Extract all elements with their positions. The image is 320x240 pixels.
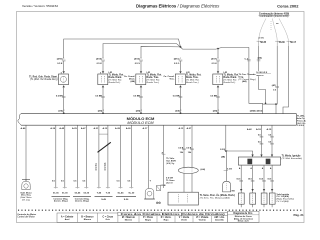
bus wire 4 bbox=[181, 47, 249, 49]
pin labels A-42 A-18 A-19 bbox=[247, 128, 272, 131]
ECM pin label (2/4) bbox=[136, 110, 142, 113]
svg-text:58-17: 58-17 bbox=[290, 42, 297, 44]
svg-text:T-45: T-45 bbox=[97, 191, 102, 194]
bottom terminal 51-30 bbox=[62, 188, 68, 195]
wire A-10 to ignition module bbox=[261, 125, 263, 157]
splice tick terminal3 wire bbox=[272, 84, 279, 91]
rotation sensor G3 box bbox=[136, 74, 146, 85]
svg-text:a: a bbox=[218, 110, 219, 112]
svg-text:SL-45: SL-45 bbox=[118, 191, 125, 194]
splice mark S-36 bbox=[156, 202, 160, 204]
small inline connector bbox=[156, 186, 160, 191]
ECM pin mark bbox=[63, 113, 65, 114]
document info box bbox=[228, 211, 260, 223]
svg-text:TL Sens. Posi. Áv. (Módu. Borb: TL Sens. Posi. Áv. (Módu. Borb.) bbox=[200, 194, 235, 197]
svg-text:A-17: A-17 bbox=[143, 127, 149, 130]
wire A-12 down bbox=[107, 125, 109, 187]
wire A-45 down bbox=[64, 125, 66, 187]
spark plug coil E3 bbox=[261, 193, 267, 204]
svg-text:Verde: Verde bbox=[181, 219, 188, 221]
svg-text:0.5 BR: 0.5 BR bbox=[56, 95, 63, 97]
svg-text:Controle do Motor: Controle do Motor bbox=[17, 213, 36, 216]
svg-text:(4/33): (4/33) bbox=[257, 110, 263, 113]
svg-text:(TL Sens. Pos. Mariposa) (4/2: (TL Sens. Pos. Mariposa) (4/2) bbox=[200, 196, 230, 199]
wire coil 3 bbox=[263, 165, 265, 193]
ECM pin mark bbox=[180, 113, 182, 114]
wire bbox=[180, 61, 182, 71]
svg-text:A-31: A-31 bbox=[93, 127, 99, 130]
svg-text:P = Preto: P = Preto bbox=[143, 216, 154, 219]
terminal 58-35 bbox=[257, 41, 267, 46]
wire C-branch down right bbox=[249, 47, 263, 113]
wire to ECM bbox=[140, 87, 142, 113]
svg-text:Cil. 1-4 (4/4): Cil. 1-4 (4/4) bbox=[277, 200, 289, 203]
connector label (4/17) bbox=[211, 57, 218, 60]
svg-text:Amarillo: Amarillo bbox=[215, 218, 224, 221]
svg-text:(2/4): (2/4) bbox=[98, 110, 103, 113]
svg-text:0.5 WS: 0.5 WS bbox=[104, 162, 107, 170]
wire from terminal 58-17 down bbox=[288, 46, 290, 86]
svg-text:0.5 BR: 0.5 BR bbox=[95, 163, 98, 171]
sensor G3 left label bbox=[124, 76, 135, 83]
coil pin marks bbox=[240, 189, 273, 191]
svg-text:(2/4): (2/4) bbox=[58, 110, 63, 113]
svg-text:(4/39): (4/39) bbox=[258, 38, 264, 40]
pin B bbox=[217, 71, 219, 73]
ECM module band U1 bbox=[18, 114, 296, 126]
svg-text:0.5 B: 0.5 B bbox=[161, 185, 166, 187]
svg-text:a: a bbox=[141, 57, 142, 59]
wire A-8 down left of oval bbox=[163, 125, 165, 188]
svg-text:Rueda Del.): Rueda Del.) bbox=[224, 82, 236, 84]
svg-text:(TL Mód. Encendido): (TL Mód. Encendido) bbox=[282, 158, 303, 160]
svg-text:0.5 K: 0.5 K bbox=[212, 63, 218, 65]
svg-text:58-30: 58-30 bbox=[279, 42, 286, 44]
splice tick + gauge bbox=[56, 95, 66, 97]
chassis ground G2 bbox=[144, 188, 155, 199]
svg-text:A-29: A-29 bbox=[72, 127, 78, 130]
ticks on ignition wires row1 bbox=[258, 135, 274, 138]
svg-text:Gris: Gris bbox=[106, 219, 111, 221]
legend cell R bbox=[161, 217, 172, 222]
inline connector ticks bbox=[101, 60, 105, 61]
terminal 58-30 bbox=[275, 41, 285, 46]
wire continue terminal1 down bbox=[259, 76, 266, 103]
wire bbox=[217, 61, 219, 71]
svg-text:a: a bbox=[180, 110, 181, 112]
wires oval to connector box bbox=[184, 174, 192, 193]
svg-text:a: a bbox=[63, 57, 64, 59]
svg-text:(TL (Rod. Od. Rueda Del.)): (TL (Rod. Od. Rueda Del.)) bbox=[30, 79, 58, 81]
wire to ECM bbox=[63, 87, 65, 113]
wire to ECM bbox=[180, 87, 182, 113]
svg-text:a: a bbox=[103, 57, 104, 59]
svg-text:(2/4): (2/4) bbox=[213, 110, 218, 113]
svg-text:Corsa 2002: Corsa 2002 bbox=[277, 4, 299, 9]
sensor G1 label bbox=[29, 75, 58, 81]
svg-text:Control del Motor: Control del Motor bbox=[17, 216, 35, 219]
ECM pin label (2/4) bbox=[175, 110, 181, 113]
svg-text:Negro: Negro bbox=[145, 219, 152, 221]
svg-text:(4/4) Ng: (4/4) Ng bbox=[166, 162, 175, 165]
splice tick on C-branch bbox=[244, 58, 250, 61]
sensor G2 label bbox=[109, 72, 125, 84]
svg-text:VI = Violeta: VI = Violeta bbox=[196, 216, 209, 219]
label block left of C-branch bbox=[239, 74, 257, 83]
svg-text:(2/4): (2/4) bbox=[136, 110, 141, 113]
wire from terminal 58-30 down bbox=[276, 46, 277, 114]
sensor G4 right label bbox=[186, 72, 202, 84]
connector label (4/15) bbox=[96, 57, 103, 60]
gauge labels bottom row bbox=[52, 180, 131, 182]
group bar 2 bbox=[73, 196, 91, 198]
svg-text:A-18: A-18 bbox=[256, 128, 262, 131]
legend cell AM bbox=[214, 216, 225, 222]
wire bbox=[140, 61, 142, 71]
splice tick + gauge bbox=[173, 95, 183, 97]
coil bottom stubs bbox=[241, 204, 272, 207]
connector box X1 bbox=[168, 192, 198, 205]
legend cell C bbox=[102, 216, 113, 221]
spark plug coil E4 bbox=[269, 193, 275, 204]
junction dot bbox=[180, 46, 182, 48]
svg-text:(4/4): (4/4) bbox=[258, 57, 263, 60]
pin B bbox=[179, 71, 181, 73]
svg-text:Continuación (Interno 4/39): Continuación (Interno 4/39) bbox=[260, 15, 289, 18]
svg-text:0.5 BR: 0.5 BR bbox=[173, 95, 180, 97]
ignition module label bbox=[282, 154, 303, 160]
ECM pin mark bbox=[140, 113, 142, 114]
svg-text:51-35: 51-35 bbox=[53, 192, 59, 194]
wire A-47 down bbox=[85, 125, 87, 187]
svg-text:Versão / Versión: 5501152: Versão / Versión: 5501152 bbox=[22, 4, 58, 8]
svg-text:0.5 BR: 0.5 BR bbox=[133, 95, 140, 97]
svg-text:Rueda Tras.): Rueda Tras.) bbox=[147, 82, 160, 84]
legend cell VI bbox=[196, 216, 209, 222]
svg-text:0.5 K: 0.5 K bbox=[57, 63, 63, 65]
wire A-29 down bbox=[76, 125, 78, 187]
legend cell P bbox=[143, 216, 154, 222]
pin A bbox=[140, 85, 142, 87]
tick on A-9 wire bbox=[220, 149, 228, 151]
bus wire 3 bbox=[141, 46, 180, 58]
svg-text:(4/1): (4/1) bbox=[272, 84, 277, 87]
wire A-1 down to oval bbox=[183, 125, 185, 167]
svg-text:MO: MO bbox=[232, 191, 236, 193]
svg-text:A-12: A-12 bbox=[102, 127, 108, 130]
throttle label block upper bbox=[166, 158, 176, 165]
svg-text:(4/4): (4/4) bbox=[131, 80, 136, 83]
group 2 caption bbox=[75, 197, 90, 202]
continuation label box (Interno 4/39) bbox=[259, 13, 290, 19]
svg-text:AM = Am.: AM = Am. bbox=[214, 216, 225, 219]
group bar 4 bbox=[116, 196, 136, 198]
svg-text:A-27: A-27 bbox=[186, 127, 192, 130]
group bar 1 bbox=[52, 196, 71, 198]
svg-text:B = Branco: B = Branco bbox=[81, 216, 94, 218]
bottom terminal S-45 bbox=[118, 188, 125, 195]
oval sensor B2 bbox=[178, 167, 198, 173]
pin A bbox=[63, 85, 65, 87]
svg-text:a: a bbox=[64, 110, 65, 112]
bottom terminal T-30 bbox=[106, 188, 111, 195]
ECM right side label bbox=[296, 116, 306, 128]
svg-text:(4/13): (4/13) bbox=[134, 57, 140, 60]
inline connector ticks bbox=[179, 60, 183, 61]
color legend table bbox=[57, 212, 228, 222]
wire drop column 5 bbox=[217, 49, 219, 59]
wire curve to terminal 58-17 bbox=[279, 19, 289, 41]
tick on knock sensor wire bbox=[224, 169, 233, 171]
wire bbox=[102, 61, 104, 71]
pin B bbox=[61, 71, 65, 74]
svg-text:SL-30: SL-30 bbox=[128, 192, 135, 194]
svg-text:0.5 G: 0.5 G bbox=[174, 63, 180, 65]
svg-text:(4/44): (4/44) bbox=[250, 110, 256, 113]
svg-text:Tras.: Tras. bbox=[169, 79, 174, 81]
ECM pin label (2/4) bbox=[213, 110, 219, 113]
svg-text:MÓDULO ECM: MÓDULO ECM bbox=[127, 120, 154, 125]
svg-text:A-26: A-26 bbox=[126, 127, 132, 130]
terminal 58-17 bbox=[287, 41, 297, 46]
legend cell A bbox=[61, 215, 74, 221]
chassis ground G1 bbox=[20, 179, 32, 201]
bus wire 2 bbox=[103, 44, 181, 59]
svg-text:(Conec. Diag.): (Conec. Diag.) bbox=[54, 201, 68, 203]
svg-text:a: a bbox=[180, 57, 181, 59]
bottom terminal S-30 bbox=[128, 188, 135, 195]
bottom terminal 53-30 bbox=[83, 188, 89, 195]
svg-text:58-35: 58-35 bbox=[260, 42, 267, 44]
svg-text:mass-a: mass-a bbox=[256, 75, 264, 77]
svg-text:(Conec. Diag.): (Conec. Diag.) bbox=[75, 201, 89, 203]
bus wire 1 bbox=[64, 39, 181, 58]
knock sensor B3 dome bbox=[223, 181, 231, 192]
wheel speed sensor G1 box bbox=[59, 74, 69, 85]
pin labels A-1 A-2 bbox=[178, 127, 192, 130]
spark plug coil E2 bbox=[250, 193, 256, 204]
svg-text:51-30: 51-30 bbox=[62, 192, 68, 194]
splice tick terminal1 wire bbox=[257, 57, 262, 61]
splice label S lines bbox=[256, 72, 271, 77]
connector box label bbox=[200, 194, 235, 200]
throttle label block lower bbox=[161, 178, 176, 188]
rotation sensor G4 box bbox=[175, 74, 185, 85]
inline connector ticks bbox=[139, 60, 143, 61]
wire A-30 down bbox=[55, 125, 57, 187]
svg-text:A-19: A-19 bbox=[266, 128, 272, 131]
coil wire pin labels bbox=[239, 167, 272, 170]
svg-text:A-30: A-30 bbox=[50, 127, 56, 130]
junction dot column 5 bbox=[217, 48, 219, 50]
group 1 caption bbox=[53, 197, 68, 202]
rotation sensor G2 box bbox=[98, 74, 108, 85]
svg-text:0.5 S: 0.5 S bbox=[135, 63, 141, 65]
legend cell M bbox=[122, 217, 135, 222]
sensor G5 right label bbox=[224, 72, 240, 84]
ECM pin mark bbox=[217, 113, 219, 114]
svg-text:(4/19): (4/19) bbox=[57, 57, 63, 60]
branch wire to ignition module bbox=[226, 151, 253, 157]
wire terminal3 lower bbox=[283, 86, 289, 114]
coil label bbox=[277, 193, 295, 203]
svg-text:Blanco: Blanco bbox=[84, 219, 92, 221]
pin tick on A-8 wire bbox=[162, 151, 166, 154]
svg-text:C = Cinza: C = Cinza bbox=[102, 216, 113, 218]
splice tick + gauge bbox=[95, 95, 105, 97]
svg-text:Violeta: Violeta bbox=[199, 218, 207, 221]
wire A-31 down bbox=[98, 125, 100, 187]
splice tick + gauge bbox=[210, 95, 220, 97]
legend cell V bbox=[179, 217, 190, 222]
svg-text:A-28: A-28 bbox=[115, 127, 121, 130]
wire bbox=[63, 61, 65, 71]
svg-text:0.5 BR: 0.5 BR bbox=[210, 95, 217, 97]
svg-text:a: a bbox=[103, 110, 104, 112]
link wire at y104 bbox=[263, 103, 277, 105]
svg-text:0.5 BR: 0.5 BR bbox=[95, 95, 102, 97]
svg-text:a: a bbox=[141, 110, 142, 112]
svg-text:(4/2) B: (4/2) B bbox=[166, 181, 173, 184]
wire curve to terminal 58-35 bbox=[259, 19, 266, 41]
legend header band bbox=[118, 212, 228, 216]
connector label (4/19) bbox=[57, 57, 64, 60]
spark plug coil E1 bbox=[238, 193, 244, 204]
wire to ECM bbox=[217, 87, 219, 113]
dashed break mark bbox=[270, 21, 272, 31]
pin A bbox=[217, 85, 219, 87]
svg-text:0.5 K: 0.5 K bbox=[97, 63, 103, 65]
rotation sensor G5 box bbox=[213, 74, 223, 85]
wire coil 1 bbox=[240, 165, 242, 193]
sensor G3 right label bbox=[147, 72, 163, 84]
bottom terminal T-45 bbox=[97, 188, 102, 195]
connector label (4/13) bbox=[134, 57, 141, 60]
svg-text:Diagramas Elétricos / Diagrama: Diagramas Elétricos / Diagramas Eléctric… bbox=[136, 4, 220, 9]
ticks on ignition wires row2 bbox=[258, 142, 274, 145]
junction dot link bbox=[275, 103, 277, 105]
wire curve to terminal 58-30 bbox=[273, 19, 278, 41]
coil wire ticks bbox=[236, 179, 273, 182]
pin B bbox=[140, 71, 142, 73]
svg-text:Rojo: Rojo bbox=[164, 219, 170, 221]
junction dot t1 bbox=[265, 103, 267, 105]
svg-text:a: a bbox=[218, 57, 219, 59]
svg-text:S-49: S-49 bbox=[101, 198, 106, 201]
splice tick + gauge bbox=[133, 95, 143, 97]
svg-text:Marrón: Marrón bbox=[125, 219, 133, 221]
ECM pin label (2/4) bbox=[58, 110, 64, 113]
svg-text:Eléctr. 4-21: Eléctr. 4-21 bbox=[238, 220, 250, 223]
page frame bbox=[17, 12, 305, 223]
wire A-9 down with branch bbox=[225, 125, 228, 181]
splice ticks on oval wires bbox=[178, 147, 194, 154]
switch arm S1 bbox=[98, 142, 111, 152]
svg-text:T-30: T-30 bbox=[106, 192, 111, 194]
svg-text:A-46: A-46 bbox=[21, 127, 27, 130]
svg-text:A-13: A-13 bbox=[178, 127, 184, 130]
sensor G4 left label bbox=[163, 76, 174, 81]
svg-text:(4/17): (4/17) bbox=[211, 57, 217, 60]
wire A-11 to ignition module bbox=[271, 125, 273, 157]
svg-text:TL Rod. Odo. Roda. Diant.: TL Rod. Odo. Roda. Diant. bbox=[29, 75, 58, 78]
svg-text:Del. Izq.): Del. Izq.) bbox=[22, 200, 31, 202]
svg-text:(4/4): (4/4) bbox=[242, 80, 247, 83]
ECM pin mark bbox=[102, 113, 104, 114]
wire A-2 down to oval bbox=[191, 125, 193, 167]
ECM pin label (2/4) bbox=[98, 110, 104, 113]
svg-text:A-42: A-42 bbox=[247, 128, 253, 131]
pin A bbox=[102, 85, 104, 87]
svg-text:2-A 4/4: 2-A 4/4 bbox=[296, 124, 305, 127]
svg-text:0.3 B: 0.3 B bbox=[227, 169, 232, 171]
legend cell B bbox=[81, 216, 94, 221]
svg-text:A-45: A-45 bbox=[59, 127, 65, 130]
wire from terminal 58-35 down bbox=[258, 46, 260, 71]
inline connector ticks bbox=[62, 60, 66, 61]
pin B bbox=[100, 71, 104, 74]
pin marks into ignition module bbox=[251, 155, 273, 157]
svg-text:Azul: Azul bbox=[65, 218, 70, 221]
wire to ECM bbox=[102, 87, 104, 113]
svg-text:Pág. 21: Pág. 21 bbox=[293, 213, 304, 217]
svg-text:(4-4): (4-4) bbox=[201, 168, 206, 171]
svg-text:(4/15): (4/15) bbox=[96, 57, 102, 60]
group bar 3 bbox=[95, 196, 113, 198]
bottom terminal 51-35 bbox=[53, 188, 59, 195]
svg-text:(4B): (4B) bbox=[221, 156, 225, 159]
svg-text:(2/4): (2/4) bbox=[175, 110, 180, 113]
connector label (4/11) bbox=[174, 57, 181, 60]
svg-text:Rueda Del.): Rueda Del.) bbox=[109, 82, 121, 84]
wire coil 2 bbox=[252, 165, 254, 193]
tick mark row bbox=[18, 209, 302, 211]
svg-text:53-45: 53-45 bbox=[75, 191, 81, 194]
svg-text:(4/11): (4/11) bbox=[174, 57, 180, 60]
pin A bbox=[179, 85, 181, 87]
footer title bbox=[17, 213, 36, 219]
bottom terminal 53-45 bbox=[75, 188, 81, 195]
wire to ground G1 bbox=[25, 125, 27, 181]
wire to ground G2 bbox=[148, 125, 150, 188]
wire coil 4 bbox=[271, 165, 273, 193]
wire A-28 down bbox=[120, 125, 122, 187]
ignition module U2 bbox=[238, 157, 280, 165]
svg-text:Rueda Tras.): Rueda Tras.) bbox=[186, 82, 199, 84]
junction dot branch bbox=[225, 150, 227, 152]
svg-text:A = Celeste: A = Celeste bbox=[61, 215, 74, 218]
wire A-26 down bbox=[130, 125, 132, 187]
inline connector ticks bbox=[216, 60, 220, 61]
below-band pin labels row (left) bbox=[21, 127, 149, 130]
svg-text:Cores dos Circuitos Elétricos: Cores dos Circuitos Elétricos (Colores d… bbox=[121, 213, 225, 216]
svg-text:S-36: S-36 bbox=[124, 199, 129, 201]
svg-text:53-30: 53-30 bbox=[83, 192, 89, 194]
crossbar above switch bbox=[99, 133, 108, 135]
svg-text:A-47: A-47 bbox=[81, 127, 87, 130]
